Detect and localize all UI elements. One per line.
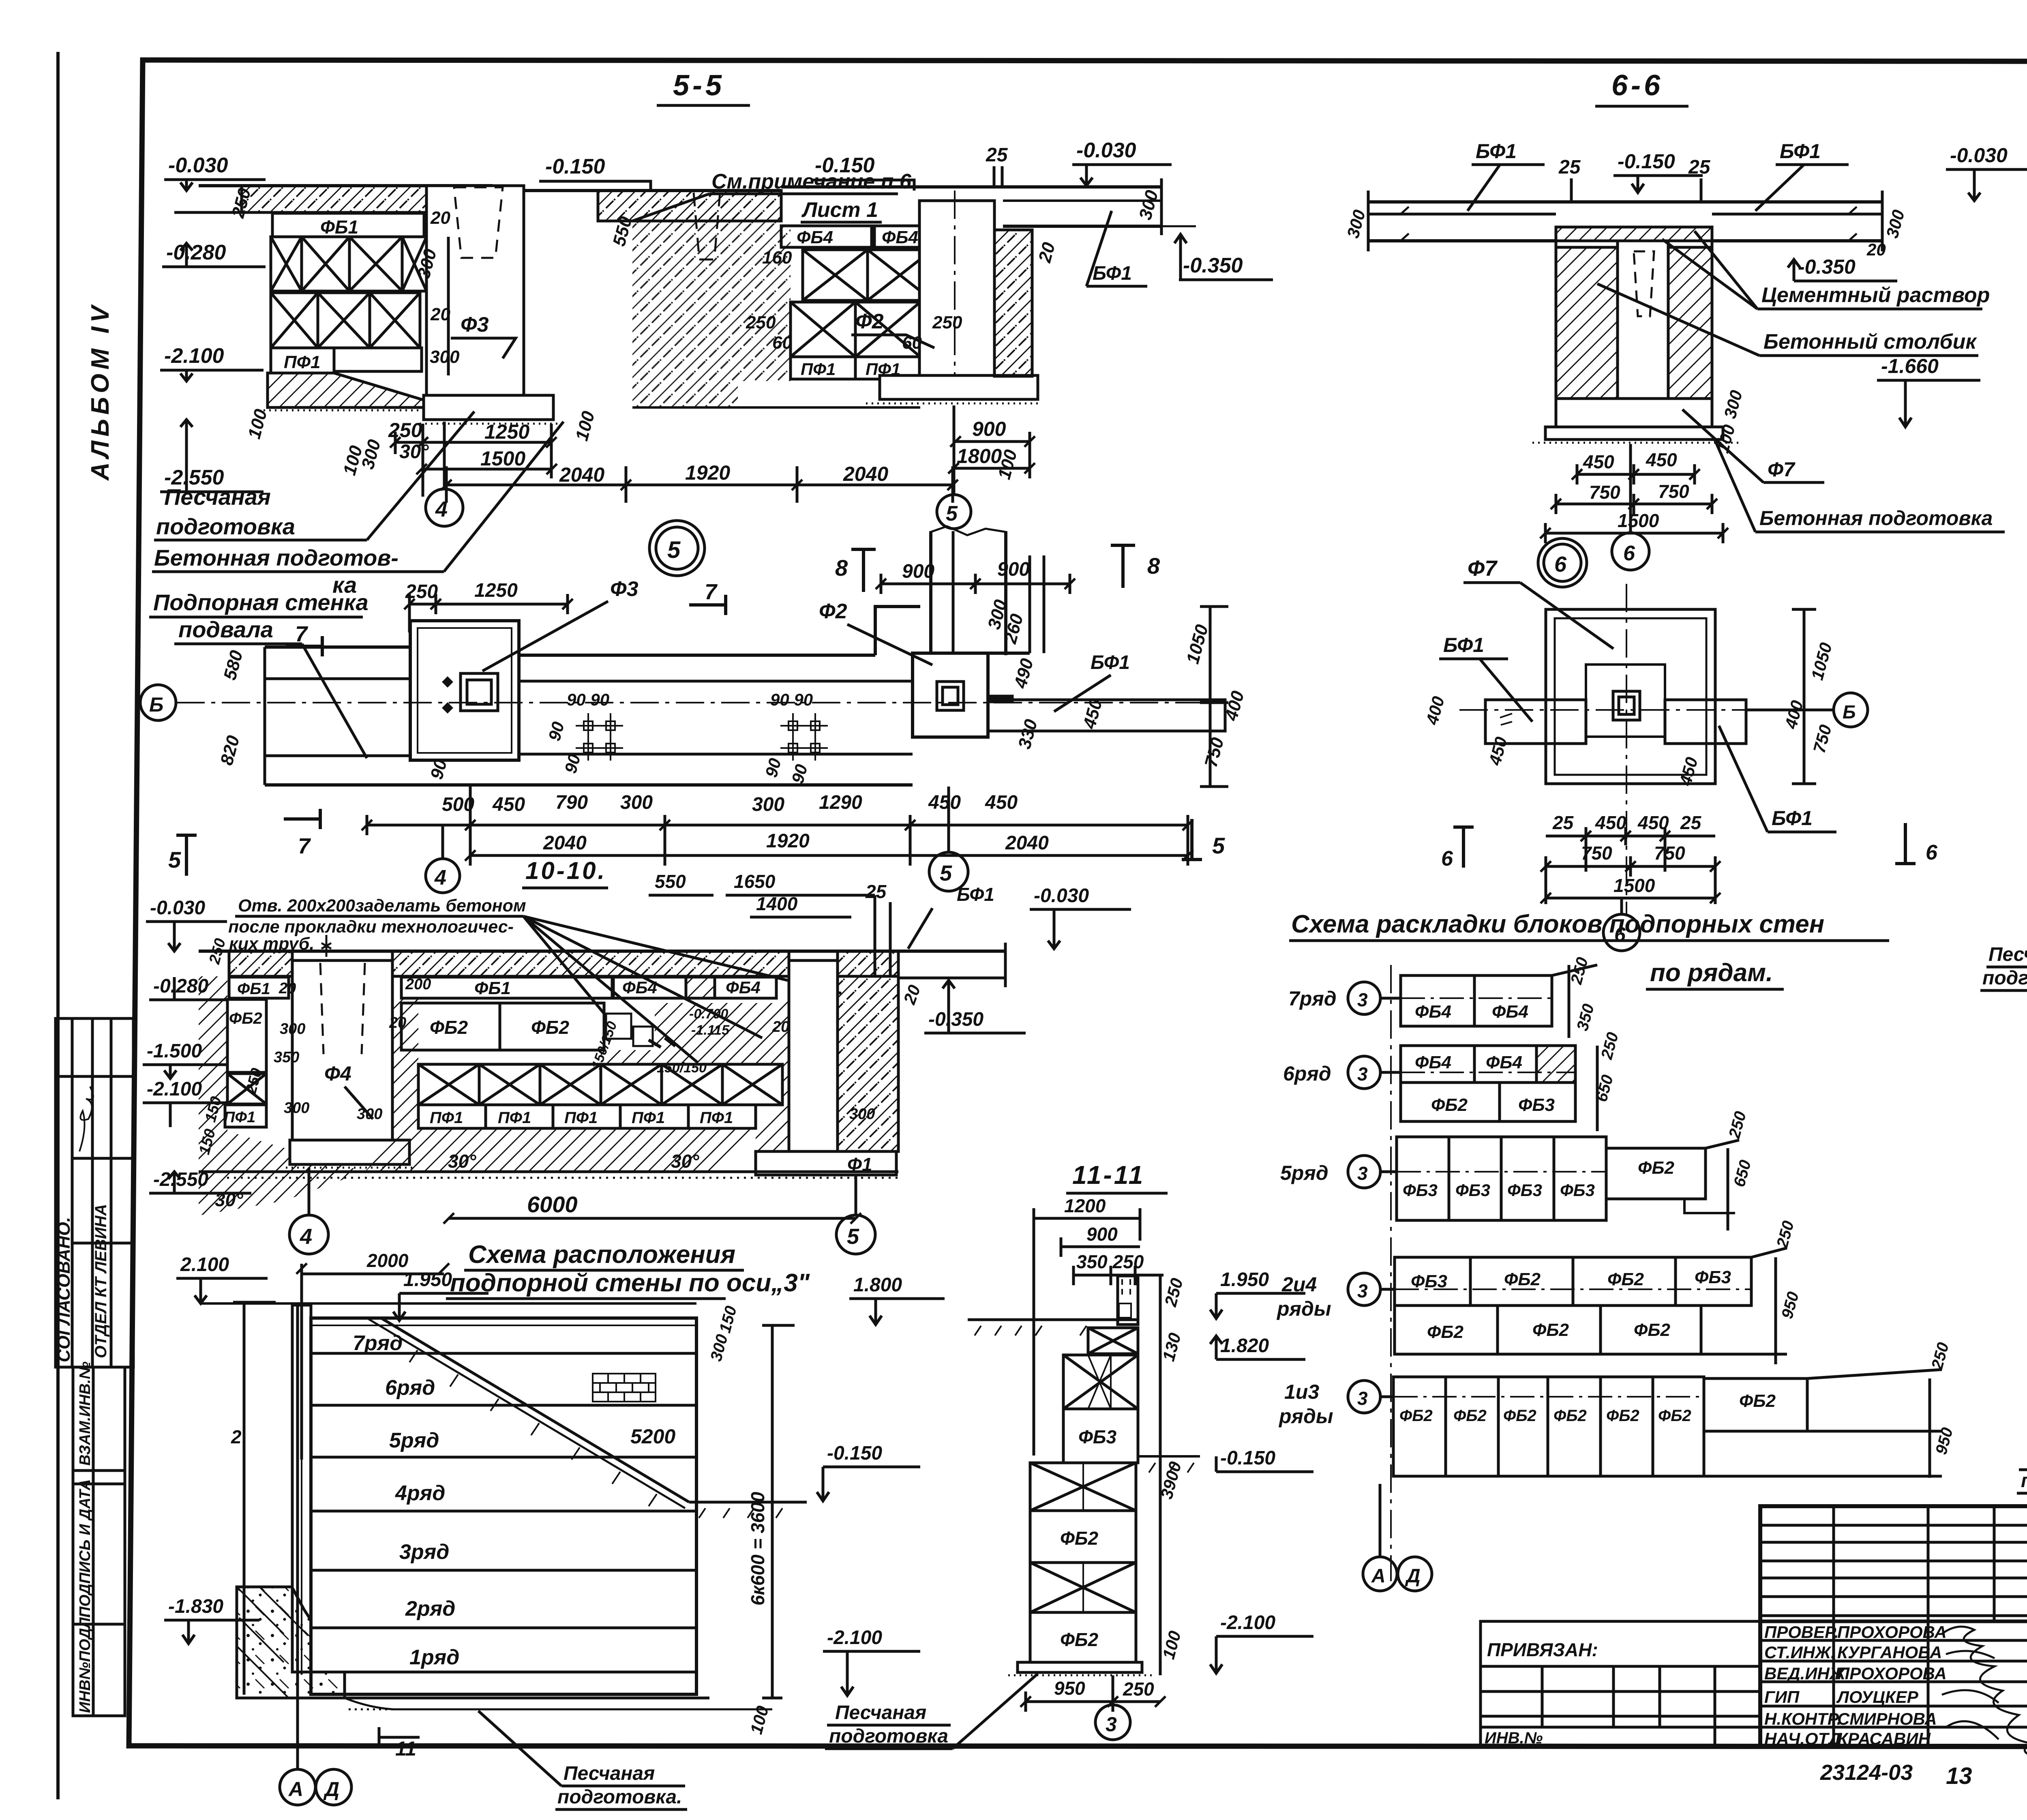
svg-text:750: 750 bbox=[1654, 842, 1685, 864]
svg-text:900: 900 bbox=[997, 559, 1030, 580]
base line under wall bbox=[237, 1672, 772, 1709]
svg-text:3: 3 bbox=[1357, 989, 1368, 1010]
svg-text:4: 4 bbox=[434, 866, 446, 890]
level -1.660 6-6 bbox=[1877, 355, 1980, 427]
dim 300 150 rotated bbox=[707, 1304, 740, 1363]
note otverstie text bbox=[228, 896, 841, 1062]
label BF1 left 6-6 bbox=[1468, 140, 1545, 211]
svg-text:ФБ2: ФБ2 bbox=[1607, 1269, 1644, 1289]
label F7 bbox=[1463, 556, 1613, 649]
svg-text:350: 350 bbox=[274, 1049, 299, 1066]
svg-text:2000: 2000 bbox=[366, 1250, 409, 1271]
svg-text:ФБ2: ФБ2 bbox=[531, 1017, 569, 1038]
svg-text:ПФ1: ПФ1 bbox=[224, 1109, 255, 1126]
svg-text:ПФ1: ПФ1 bbox=[284, 352, 320, 372]
label cement mortar 6-6 bbox=[1662, 231, 1990, 309]
BF1 label right 10-10 bbox=[908, 884, 1131, 949]
svg-text:подготовка: подготовка bbox=[829, 1726, 948, 1747]
svg-text:-0.030: -0.030 bbox=[150, 897, 205, 919]
svg-text:ряды: ряды bbox=[1276, 1297, 1331, 1320]
X-block row 2 left wall bbox=[271, 293, 420, 348]
section marks 5 plan bbox=[168, 819, 1225, 876]
level mark -0.350 right bbox=[1174, 234, 1273, 280]
svg-text:250: 250 bbox=[1123, 1679, 1154, 1700]
svg-text:30°: 30° bbox=[399, 441, 429, 463]
level 2.100 bbox=[176, 1254, 268, 1303]
axis circle 6 single 6-6 bbox=[1612, 444, 1649, 570]
dimension tick marks bbox=[296, 436, 2027, 1707]
row 7 blocks bbox=[1401, 975, 1552, 1026]
axis circle B bbox=[140, 685, 176, 720]
svg-text:после прокладки технологичес-: после прокладки технологичес- bbox=[228, 917, 514, 937]
dims 950 250 11-11 bbox=[1026, 1678, 1160, 1712]
level -1.830 bbox=[164, 1596, 259, 1644]
svg-text:30°: 30° bbox=[448, 1151, 476, 1172]
level mark -0.280 bbox=[162, 241, 266, 267]
svg-text:ФБ2: ФБ2 bbox=[1658, 1407, 1691, 1425]
svg-text:300: 300 bbox=[752, 794, 784, 815]
axis circle 5 double top bbox=[649, 521, 705, 576]
svg-text:ФБ4: ФБ4 bbox=[622, 978, 657, 997]
label BF1 right f7 bbox=[1719, 726, 1836, 832]
svg-text:3: 3 bbox=[1357, 1280, 1368, 1301]
left small dims 10-10 bbox=[196, 937, 875, 1156]
svg-text:Песчаная: Песчаная bbox=[164, 484, 271, 510]
outer page edge left line bbox=[56, 52, 60, 1799]
svg-text:подготовка: подготовка bbox=[156, 514, 295, 539]
svg-text:по рядам.: по рядам. bbox=[1650, 959, 1773, 987]
pier body 6-6 bbox=[1556, 241, 1712, 399]
staff names bbox=[1764, 1623, 1947, 1748]
svg-text:ПФ1: ПФ1 bbox=[700, 1109, 733, 1127]
f7 dim lines right bbox=[1792, 609, 1816, 784]
BF1 beam right in plan bbox=[988, 652, 1225, 731]
svg-text:СТ.ИНЖ.: СТ.ИНЖ. bbox=[1764, 1643, 1836, 1662]
svg-text:-0.150: -0.150 bbox=[827, 1443, 882, 1464]
svg-text:60: 60 bbox=[772, 333, 792, 353]
svg-text:6к600 = 3600: 6к600 = 3600 bbox=[747, 1492, 768, 1606]
left dim line bbox=[231, 1302, 276, 1695]
F7 center anchor square bbox=[1613, 691, 1640, 720]
svg-text:300: 300 bbox=[620, 792, 653, 813]
svg-text:1650: 1650 bbox=[734, 871, 776, 892]
svg-text:ФБ2: ФБ2 bbox=[1739, 1391, 1776, 1411]
svg-text:БФ1: БФ1 bbox=[1093, 263, 1132, 284]
svg-text:Ф2: Ф2 bbox=[855, 310, 884, 333]
stamp text ИНВ bbox=[77, 1361, 94, 1713]
svg-text:900: 900 bbox=[1086, 1224, 1118, 1245]
svg-text:2ряд: 2ряд bbox=[405, 1597, 455, 1621]
right gap hatch 10-10 bbox=[756, 998, 789, 1151]
svg-text:Песчаная: Песчаная bbox=[564, 1763, 655, 1784]
foundation F3 column bbox=[426, 186, 524, 395]
svg-text:250: 250 bbox=[405, 581, 438, 602]
svg-text:-0.030: -0.030 bbox=[168, 154, 228, 177]
svg-text:Ф7: Ф7 bbox=[1768, 458, 1796, 481]
svg-text:20: 20 bbox=[1866, 240, 1886, 259]
row 1and3 blocks bbox=[1393, 1377, 1704, 1476]
svg-text:7: 7 bbox=[705, 580, 718, 604]
f7 dim 1500 bbox=[1546, 875, 1715, 898]
right pier inner anchor square bbox=[937, 682, 964, 710]
svg-text:-0.150: -0.150 bbox=[1618, 150, 1675, 173]
svg-text:ВЗАМ.ИНВ.№: ВЗАМ.ИНВ.№ bbox=[77, 1361, 94, 1466]
svg-text:ГИП: ГИП bbox=[1764, 1687, 1800, 1706]
wall band left segment bbox=[265, 647, 410, 785]
svg-text:ФБ4: ФБ4 bbox=[726, 978, 761, 997]
ground line right of wall bbox=[689, 1502, 807, 1518]
svg-text:НАЧ.ОТД: НАЧ.ОТД bbox=[1764, 1729, 1841, 1748]
svg-text:1500: 1500 bbox=[1618, 510, 1659, 531]
foundation F3 footing bbox=[420, 395, 559, 424]
right pier side hatch bbox=[838, 976, 898, 1151]
svg-text:3: 3 bbox=[1357, 1388, 1368, 1409]
section mark 7 mid bbox=[689, 580, 726, 615]
svg-text:1920: 1920 bbox=[685, 461, 730, 484]
svg-text:450: 450 bbox=[928, 792, 961, 813]
row 2and4 blocks top bbox=[1395, 1257, 1751, 1306]
svg-text:2040: 2040 bbox=[543, 832, 587, 854]
svg-text:25: 25 bbox=[1680, 812, 1702, 833]
section 10-10 title bbox=[525, 857, 606, 884]
svg-text:1290: 1290 bbox=[819, 792, 862, 813]
level mark -2.550 bbox=[160, 420, 264, 492]
svg-text:11: 11 bbox=[395, 1737, 416, 1760]
svg-text:-1.830: -1.830 bbox=[168, 1596, 223, 1617]
svg-text:450: 450 bbox=[1646, 449, 1677, 470]
svg-text:450: 450 bbox=[492, 794, 525, 815]
level mark -0.030 right bbox=[1072, 139, 1172, 186]
level 1.820 11-11 bbox=[1210, 1335, 1305, 1359]
level -0.030 left 10-10 bbox=[146, 897, 227, 951]
svg-text:4: 4 bbox=[435, 497, 448, 521]
level 1.800 bbox=[849, 1274, 945, 1325]
middle wall X row2 bbox=[791, 302, 920, 357]
FB2 big blocks 10-10 bbox=[401, 1003, 604, 1050]
level mark -2.100 bbox=[160, 344, 264, 381]
svg-text:1250: 1250 bbox=[474, 580, 518, 601]
svg-text:ФБ3: ФБ3 bbox=[1411, 1271, 1447, 1291]
footing plate 6-6 bbox=[1532, 427, 1739, 443]
center axis lines f7 bbox=[1459, 584, 1832, 916]
row 2and4 blocks bottom bbox=[1395, 1306, 1701, 1354]
svg-text:30°: 30° bbox=[671, 1151, 699, 1172]
svg-text:подпорной стены по оси„3": подпорной стены по оси„3" bbox=[450, 1269, 810, 1297]
title block outer bbox=[1760, 1506, 2027, 1747]
svg-text:790: 790 bbox=[555, 792, 588, 813]
left pier square F3 bbox=[410, 621, 519, 760]
label BF1 left f7 bbox=[1439, 634, 1532, 722]
anchor bolts group 1 bbox=[576, 713, 623, 761]
svg-text:900: 900 bbox=[902, 561, 934, 582]
PF1 row 10-10 bbox=[418, 1105, 756, 1128]
dims 450 450 6-6 bbox=[1577, 449, 1695, 484]
svg-text:20: 20 bbox=[772, 1018, 789, 1035]
svg-text:ФБ4: ФБ4 bbox=[1486, 1053, 1522, 1072]
svg-text:250: 250 bbox=[746, 313, 776, 332]
svg-text:5ряд: 5ряд bbox=[1280, 1162, 1328, 1184]
svg-text:-1.660: -1.660 bbox=[1881, 355, 1939, 377]
foundation F2 footing bbox=[866, 375, 1038, 403]
axis circle B f7 bbox=[1746, 693, 1868, 727]
FB1 long block 10-10 bbox=[401, 976, 612, 998]
svg-text:900: 900 bbox=[972, 418, 1006, 440]
row labels bbox=[353, 1331, 459, 1669]
section marks 8 bbox=[835, 545, 1160, 592]
svg-text:7: 7 bbox=[298, 834, 311, 858]
floor slab top line right bbox=[781, 185, 1161, 189]
svg-text:подготовка: подготовка bbox=[2021, 1470, 2027, 1492]
middle hatch wedge below 10-10 bbox=[365, 998, 470, 1172]
stamp box lower (ИНВ ПОДЛ) bbox=[73, 1367, 125, 1716]
f7 dims rotated bbox=[1422, 641, 1836, 788]
label BF1 right bbox=[1086, 211, 1147, 286]
trench dashed lines at F2 bbox=[944, 203, 974, 255]
svg-text:11-11: 11-11 bbox=[1072, 1160, 1145, 1190]
trench dashed lines middle bbox=[694, 193, 720, 259]
row lines bbox=[311, 1325, 696, 1628]
ground line 11-11 bbox=[968, 1320, 1139, 1336]
svg-text:Д: Д bbox=[323, 1778, 339, 1801]
svg-text:Подпорная стенка: Подпорная стенка bbox=[153, 590, 369, 615]
axis line B dash-dot bbox=[176, 702, 1228, 703]
right dim stack 11-11 bbox=[1157, 1276, 1187, 1661]
footing plate 11-11 bbox=[1008, 1662, 1155, 1675]
F7 pedestal rect bbox=[1586, 665, 1665, 737]
level -0.150 6-6 bbox=[1613, 150, 1703, 193]
svg-text:450: 450 bbox=[985, 792, 1018, 813]
svg-text:300: 300 bbox=[280, 1020, 305, 1038]
staff rows bbox=[1760, 1506, 2027, 1747]
row 7 dims bbox=[1552, 955, 1598, 1038]
section 11-11 title bbox=[1072, 1160, 1145, 1190]
svg-text:Ф7: Ф7 bbox=[1468, 556, 1498, 581]
top dims 10-10 right bbox=[649, 871, 890, 977]
base line 10-10 bbox=[199, 1172, 898, 1178]
svg-text:ФБ2: ФБ2 bbox=[1553, 1407, 1587, 1425]
svg-text:1и3: 1и3 bbox=[1284, 1381, 1319, 1403]
bottom dim chain plan bbox=[367, 787, 1188, 866]
svg-text:20: 20 bbox=[430, 304, 450, 324]
F7 outer square bbox=[1546, 609, 1715, 784]
svg-text:Бетонная подготовка: Бетонная подготовка bbox=[1759, 507, 1993, 529]
svg-text:2040: 2040 bbox=[1005, 832, 1049, 854]
level 1.950 11-11 bbox=[1210, 1269, 1305, 1318]
diagonal ground line bbox=[367, 1318, 689, 1508]
svg-text:ПРОХОРОВА: ПРОХОРОВА bbox=[1837, 1664, 1947, 1683]
svg-text:ФБ3: ФБ3 bbox=[1507, 1181, 1542, 1200]
svg-text:ФБ2: ФБ2 bbox=[430, 1017, 468, 1038]
svg-text:25: 25 bbox=[1558, 156, 1581, 178]
svg-text:ряды: ряды bbox=[1278, 1405, 1333, 1428]
dim 25 left 6-6 bbox=[1558, 156, 1581, 202]
X row 10-10 bbox=[418, 1064, 782, 1105]
axis circle 5 plan bottom bbox=[929, 787, 968, 891]
svg-text:1.950: 1.950 bbox=[1220, 1269, 1269, 1291]
svg-text:Ф3: Ф3 bbox=[461, 313, 489, 337]
right dim vertical line bbox=[1200, 607, 1228, 787]
label F3 bbox=[451, 313, 516, 358]
svg-text:ФБ3: ФБ3 bbox=[1518, 1095, 1555, 1115]
signatures scribble bbox=[1942, 1627, 2027, 1760]
level -0.150 11-11 bbox=[1216, 1447, 1313, 1472]
svg-text:7ряд: 7ряд bbox=[1288, 987, 1337, 1010]
level mark -0.150 right bbox=[811, 154, 914, 191]
svg-text:ФБ1: ФБ1 bbox=[474, 978, 511, 998]
svg-text:ФБ2: ФБ2 bbox=[1060, 1528, 1098, 1549]
svg-text:3ряд: 3ряд bbox=[399, 1540, 449, 1564]
label podpornaya stenka podvala bbox=[149, 590, 369, 758]
svg-text:300: 300 bbox=[849, 1106, 875, 1123]
BF1 beam right 10-10 bbox=[898, 943, 1026, 1033]
svg-text:Схема раскладки блоков подпорн: Схема раскладки блоков подпорных стен bbox=[1291, 910, 1824, 938]
svg-text:БФ1: БФ1 bbox=[1091, 652, 1130, 673]
svg-text:300: 300 bbox=[284, 1100, 309, 1117]
svg-text:Отв. 200х200заделать бетоном: Отв. 200х200заделать бетоном bbox=[238, 896, 526, 915]
brick symbol bbox=[593, 1374, 656, 1402]
axis line vertical bbox=[1390, 965, 1392, 1581]
wall left column bbox=[292, 1305, 311, 1672]
svg-text:550: 550 bbox=[655, 871, 686, 892]
axis circle 6 f7 bottom bbox=[1603, 898, 1640, 951]
svg-text:СМИРНОВА: СМИРНОВА bbox=[1837, 1709, 1937, 1728]
svg-text:ФБ4: ФБ4 bbox=[1415, 1053, 1451, 1072]
floor slab hatched band middle bbox=[493, 191, 781, 221]
sand/concrete prep labels bbox=[152, 412, 564, 598]
svg-text:6: 6 bbox=[1614, 923, 1626, 946]
svg-text:ФБ2: ФБ2 bbox=[1532, 1320, 1569, 1340]
svg-text:30°: 30° bbox=[215, 1189, 243, 1210]
pedestal 6-6 bbox=[1556, 399, 1712, 427]
privyazan box bbox=[1481, 1621, 1760, 1747]
svg-text:1500: 1500 bbox=[480, 447, 525, 470]
svg-text:-0.030: -0.030 bbox=[1950, 144, 2008, 167]
right pier footing F1 bbox=[756, 1151, 896, 1175]
dim 25 right 6-6 bbox=[1688, 156, 1711, 202]
svg-text:Бетонная подготов-: Бетонная подготов- bbox=[154, 545, 399, 570]
svg-text:БФ1: БФ1 bbox=[957, 884, 994, 905]
level -0.350 6-6 bbox=[1788, 255, 1897, 281]
sand prep label 9-9 bbox=[2017, 1362, 2027, 1493]
level mark -0.030 left bbox=[164, 154, 266, 191]
X block 3 11-11 bbox=[1030, 1463, 1136, 1511]
small post top 11-11 bbox=[1118, 1276, 1138, 1325]
svg-text:5: 5 bbox=[940, 861, 952, 885]
svg-text:АЛЬБОМ IV: АЛЬБОМ IV bbox=[86, 302, 114, 481]
dim 100 rotated bottom bbox=[746, 1704, 772, 1736]
mortar joint hatch top 6-6 bbox=[1556, 227, 1712, 241]
svg-text:25: 25 bbox=[1688, 156, 1711, 178]
svg-text:Цементный раствор: Цементный раствор bbox=[1761, 283, 1990, 307]
svg-text:1920: 1920 bbox=[766, 830, 810, 852]
svg-text:ФБ2: ФБ2 bbox=[229, 1010, 262, 1027]
svg-text:подвала: подвала bbox=[178, 617, 273, 642]
wall band going up from right pier bbox=[931, 526, 1044, 655]
svg-text:8: 8 bbox=[835, 555, 848, 581]
svg-text:-0.030: -0.030 bbox=[1076, 139, 1136, 162]
row 1and3 FB2 wide block bbox=[1704, 1378, 1807, 1431]
svg-text:6: 6 bbox=[1554, 552, 1567, 577]
axis circles A D blockschema bbox=[1363, 1484, 1397, 1591]
label F3 plan bbox=[482, 577, 639, 671]
svg-text:500: 500 bbox=[442, 794, 474, 815]
30 deg labels 10-10 bbox=[215, 1151, 699, 1210]
svg-text:ИНВ№ПОДЛ.: ИНВ№ПОДЛ. bbox=[77, 1613, 94, 1713]
svg-text:Схема расположения: Схема расположения bbox=[468, 1241, 735, 1269]
svg-text:ИНВ.№: ИНВ.№ bbox=[1485, 1729, 1543, 1747]
svg-text:300: 300 bbox=[430, 347, 460, 367]
svg-text:1200: 1200 bbox=[1064, 1195, 1106, 1216]
BF1 cantilever beam right bbox=[1003, 178, 1196, 235]
svg-text:БФ1: БФ1 bbox=[1772, 807, 1813, 830]
svg-text:10-10.: 10-10. bbox=[525, 857, 606, 884]
svg-text:ФБ2: ФБ2 bbox=[1503, 1407, 1536, 1425]
svg-text:-1.500: -1.500 bbox=[147, 1040, 202, 1062]
svg-text:7: 7 bbox=[295, 622, 309, 646]
section mark 7 upper-left bbox=[286, 622, 322, 656]
svg-text:-0.350: -0.350 bbox=[1183, 254, 1243, 277]
svg-text:БФ1: БФ1 bbox=[1780, 140, 1821, 163]
dim 1500 6-6 bbox=[1545, 510, 1723, 543]
svg-text:5: 5 bbox=[1212, 833, 1225, 858]
section 6-6 title bbox=[1611, 69, 1663, 102]
row 5 dims bbox=[1706, 1109, 1755, 1230]
f7 dims 750 750 bbox=[1546, 842, 1715, 904]
row 6 blocks bottom bbox=[1401, 1083, 1575, 1121]
svg-text:ФБ2: ФБ2 bbox=[1060, 1629, 1098, 1650]
svg-text:750: 750 bbox=[1658, 481, 1689, 502]
svg-text:БФ1: БФ1 bbox=[1476, 140, 1517, 163]
sand prep label 11-11 bbox=[825, 1674, 1038, 1749]
svg-text:-0.030: -0.030 bbox=[1034, 885, 1089, 907]
svg-text:-0.280: -0.280 bbox=[166, 241, 226, 264]
svg-text:-0.700: -0.700 bbox=[689, 1006, 728, 1022]
svg-text:5: 5 bbox=[667, 537, 681, 563]
level -0.030 right 6-6 bbox=[1946, 144, 2027, 201]
svg-text:-0.150: -0.150 bbox=[815, 154, 875, 177]
svg-text:8: 8 bbox=[1147, 553, 1160, 579]
row 2and4 dims bbox=[1701, 1219, 1802, 1364]
middle base dotted line bbox=[632, 406, 920, 409]
top line bbox=[201, 1302, 696, 1305]
svg-text:Д: Д bbox=[1405, 1565, 1421, 1587]
dim 250 1250 top bbox=[405, 580, 568, 632]
svg-text:ФБ3: ФБ3 bbox=[1455, 1181, 1490, 1200]
svg-text:2040: 2040 bbox=[843, 463, 888, 485]
left X block 10-10 bbox=[227, 1074, 266, 1104]
svg-text:ФБ2: ФБ2 bbox=[1431, 1095, 1468, 1115]
svg-text:23124-03: 23124-03 bbox=[1820, 1760, 1913, 1785]
level -0.150 wall schema bbox=[817, 1443, 920, 1501]
middle wall X row1 bbox=[803, 250, 932, 300]
svg-text:ФБ2: ФБ2 bbox=[1504, 1269, 1541, 1289]
rotated small dims 5-5 bbox=[228, 186, 1162, 481]
svg-text:ОТДЕЛ КТ ЛЕВИНА: ОТДЕЛ КТ ЛЕВИНА bbox=[92, 1204, 110, 1358]
svg-text:6: 6 bbox=[1926, 841, 1938, 864]
svg-text:25: 25 bbox=[1552, 812, 1574, 833]
stamp signature squiggle bbox=[79, 1087, 93, 1151]
svg-text:-0.150: -0.150 bbox=[1220, 1447, 1275, 1469]
svg-text:250: 250 bbox=[388, 419, 422, 442]
svg-text:300: 300 bbox=[357, 1106, 382, 1123]
svg-text:ФБ4: ФБ4 bbox=[1415, 1002, 1451, 1022]
note see primechanie bbox=[632, 170, 912, 222]
svg-text:ФБ2: ФБ2 bbox=[1638, 1158, 1675, 1178]
row 6 blocks top bbox=[1401, 1046, 1575, 1083]
svg-text:ФБ3: ФБ3 bbox=[1560, 1181, 1595, 1200]
axis circle 5 10-10 bbox=[836, 1176, 875, 1254]
FB2 block 2 11-11 bbox=[1030, 1612, 1136, 1662]
